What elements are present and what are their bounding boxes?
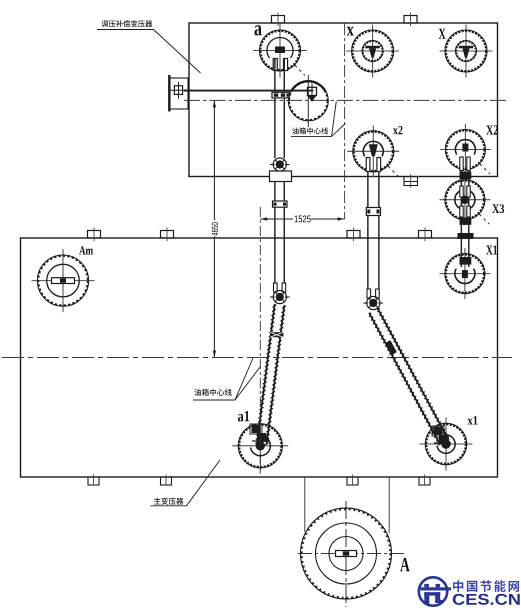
bushing X <box>440 25 493 78</box>
lug on top tank top edge (right) <box>404 13 417 27</box>
designator X2 <box>486 125 498 134</box>
clamp on phase-a rod at lead <box>272 92 289 98</box>
lug on main tank bottom edge 3 <box>347 475 358 486</box>
lug on main tank top edge (far left) <box>88 228 101 242</box>
phase-a diagonal rod to a1 <box>255 304 286 445</box>
bushing a <box>253 24 307 78</box>
clamp sleeves above joint x2 <box>367 289 379 298</box>
tap-changer bracket plate <box>169 75 188 112</box>
top tank oil-level centerline (dash-dot) <box>184 99 507 101</box>
extension line for 1525 right (phase partition) <box>344 23 346 219</box>
ball joint a lower <box>270 290 290 303</box>
top tank outline (regulating compensation transformer) <box>189 23 498 177</box>
clamp X-chain at top tank bottom edge <box>460 172 471 179</box>
lug on main tank bottom edge 4 <box>419 475 430 486</box>
X-chain rod X2 to X3 <box>461 157 468 267</box>
label oil tank centerline (top) <box>291 101 345 136</box>
terminal cluster at a1 <box>250 424 269 442</box>
lug on main tank bottom edge 1 <box>88 475 99 486</box>
CES logo text CES.CN <box>453 594 520 605</box>
label tiaoyabuchang-bianyaqi (regulating compensation transformer) <box>97 20 201 73</box>
lug on main tank top edge (left) <box>161 228 174 242</box>
main tank centerline (dash-dot) <box>2 357 512 359</box>
dimension 4650 <box>212 100 218 357</box>
projection line A left <box>304 477 306 532</box>
clamp sleeves around X3 <box>460 186 470 217</box>
label main transformer <box>151 460 221 506</box>
clamp X-chain above X1 <box>460 258 471 265</box>
lug on main tank top edge (middle) <box>347 228 360 242</box>
bushing Am <box>32 249 95 312</box>
phase-x2 rod vertical segment <box>368 158 379 296</box>
designator a <box>255 25 262 35</box>
clamp sleeves below X2 <box>460 157 470 171</box>
bushing A <box>298 501 407 607</box>
clamp X-chain below X3 <box>460 218 471 224</box>
designator X3 <box>492 204 504 213</box>
lug on top tank bottom edge <box>404 174 418 188</box>
bushing X1 <box>439 248 490 299</box>
CES logo text zhongguo-jieneng-wang <box>453 580 519 592</box>
lug on top tank top edge (phase a) <box>272 13 285 27</box>
clamp on phase-a diagonal rod <box>270 332 283 337</box>
clamp on phase-a rod mid <box>273 201 288 207</box>
clamp sleeves below x2 <box>366 158 380 172</box>
designator x <box>347 27 354 36</box>
lug on main tank bottom edge 2 <box>161 475 172 486</box>
ball joint x2 <box>364 296 384 309</box>
label oil tank centerline (bottom) <box>193 358 261 400</box>
bushing x2 <box>347 125 399 177</box>
main tank outline (main transformer) <box>21 238 498 477</box>
designator A <box>400 558 410 571</box>
dimension 1525 <box>260 215 344 222</box>
bushing a1 <box>232 418 288 474</box>
jumper terminal circle on oil centerline <box>288 75 328 127</box>
clamp on x2 rod <box>366 208 380 216</box>
a1 bushing centerline extension <box>259 207 261 472</box>
bushing x1 <box>420 418 473 471</box>
ball joint a upper <box>270 158 290 171</box>
bushing x <box>346 25 399 78</box>
clamp X-chain at main tank top edge <box>458 234 473 239</box>
bracket terminal bolt <box>171 82 192 99</box>
phase-x2 diagonal rod to x1 <box>369 308 449 446</box>
bushing X2 <box>440 124 491 175</box>
clamp sleeves above joint a lower <box>274 283 286 292</box>
designator x1 <box>468 416 478 424</box>
bushing X3 <box>439 174 490 225</box>
designator Am <box>79 246 93 254</box>
coupler plate below joint <box>270 171 292 182</box>
projection line A right <box>388 477 390 533</box>
phase-a rod middle segment <box>275 182 284 292</box>
clamp on x2 diagonal rod <box>386 340 397 354</box>
phase-a draw rod upper segment <box>275 59 284 159</box>
designator X1 <box>486 245 497 254</box>
designator X <box>439 29 446 39</box>
CES logo icon <box>419 577 451 605</box>
lug on main tank top edge (right) <box>419 228 432 242</box>
terminal cluster at x1 <box>432 426 451 444</box>
designator x2 <box>393 126 402 134</box>
lead wire from bracket to jumper terminal <box>184 90 314 92</box>
designator a1 <box>238 411 250 421</box>
